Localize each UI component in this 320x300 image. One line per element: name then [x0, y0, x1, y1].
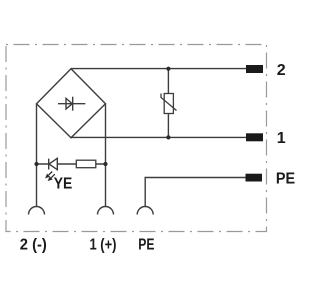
connector contact 2 socket — [29, 207, 45, 215]
wire top corner to pin 2 — [71, 68, 246, 70]
junction node right wire / LED branch — [103, 162, 107, 166]
pin PE terminal — [246, 174, 263, 182]
LED light emission arrow lower — [49, 174, 55, 180]
svg-text:1: 1 — [277, 130, 286, 147]
wire varistor branch lower segment — [167, 114, 169, 138]
dash-dot enclosure border — [6, 45, 267, 232]
LED D1 cathode bar — [48, 159, 50, 170]
varistor R2 body — [164, 94, 173, 114]
LED D1 triangle — [49, 158, 57, 169]
svg-text:1 (+): 1 (+) — [90, 236, 117, 253]
wire left corner down to contact 2 — [36, 104, 38, 207]
wire right corner down to contact 1 — [105, 104, 107, 207]
LED light emission arrow upper — [46, 172, 52, 178]
junction node left wire / LED branch — [34, 162, 38, 166]
wire bottom corner to pin 1 — [71, 136, 246, 138]
svg-text:PE: PE — [276, 171, 295, 188]
LED branch wire — [37, 163, 106, 165]
wire varistor branch upper segment — [167, 69, 169, 94]
svg-text:PE: PE — [138, 236, 154, 253]
varistor diagonal stroke — [161, 94, 177, 111]
svg-text:2: 2 — [277, 62, 286, 79]
connector contact 1 socket — [98, 207, 114, 215]
bridge diode internal symbol — [58, 97, 85, 111]
resistor R1 — [76, 160, 96, 168]
bridge rectifier B1 diamond — [37, 69, 106, 138]
junction node top wire / varistor — [166, 67, 170, 71]
PE wire from contact up and right to PE pin — [145, 178, 245, 207]
pin 1 terminal — [246, 133, 263, 141]
connector contact PE socket — [137, 207, 153, 215]
junction node bottom wire / varistor — [166, 135, 170, 139]
svg-text:YE: YE — [54, 175, 73, 192]
pin 2 terminal — [246, 65, 263, 73]
svg-text:2 (-): 2 (-) — [20, 236, 47, 253]
